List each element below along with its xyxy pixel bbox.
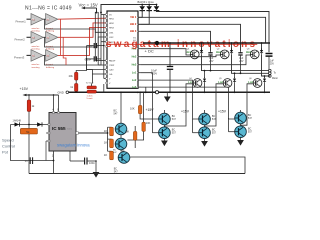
svg-text:547: 547 — [114, 170, 119, 173]
svg-text:CA-: CA- — [109, 73, 113, 76]
wire FAULT stub — [95, 60, 107, 62]
transistor T2 BC547 — [115, 138, 127, 150]
svg-text:HIN1: HIN1 — [109, 18, 115, 20]
node motor terminal phase1 — [269, 69, 272, 72]
wire preset1 input — [27, 18, 32, 20]
wire diode row — [11, 124, 50, 126]
svg-text:+15V: +15V — [218, 110, 227, 114]
wire 555 pin2 stub — [45, 141, 47, 161]
wire pair3 emitters — [240, 124, 242, 126]
ground arrow pair1 — [161, 139, 168, 147]
resistor R 1k top — [27, 95, 35, 125]
svg-text:557: 557 — [212, 132, 217, 135]
svg-text:+ DC: + DC — [145, 49, 154, 54]
wire phase3 collector drop — [261, 43, 263, 51]
svg-text:547: 547 — [114, 112, 119, 115]
diode Q6 freewheel — [263, 77, 266, 83]
svg-text:Lo3: Lo3 — [248, 81, 253, 84]
wire Lo3 feed to pair3 — [141, 87, 235, 119]
svg-text:547: 547 — [248, 117, 253, 120]
transistor pair1 BC557 — [159, 127, 171, 139]
svg-text:HB 2: HB 2 — [130, 22, 137, 26]
svg-text:Ho1: Ho1 — [186, 51, 191, 54]
ground symbol below 100n — [93, 161, 100, 178]
IC1 555 top pin boxes — [53, 112, 60, 114]
svg-text:HB 3: HB 3 — [130, 29, 137, 33]
wire 555 pin4 — [53, 95, 55, 113]
wire pot bottom to rail — [28, 134, 30, 174]
wire dark N3 tap to LIN2 — [45, 37, 108, 47]
transistor Q1 high phase1 — [190, 50, 199, 59]
transistor Q4 low phase1 — [193, 79, 202, 88]
transistor Q6 low phase3 — [253, 79, 262, 88]
svg-text:To Timer: To Timer — [86, 82, 94, 84]
diode Q5 freewheel — [233, 77, 236, 83]
wire pair2 base2 stub — [193, 132, 199, 134]
wire VB2 rail to cap — [141, 24, 241, 51]
resistor R 1K b — [104, 139, 114, 148]
transistor pair3 BC557 — [235, 126, 247, 138]
resistor R 1k lower — [70, 84, 78, 92]
IC1 555 body — [49, 113, 76, 152]
svg-text:Speed: Speed — [2, 138, 14, 143]
wire 555 output pin3 — [76, 132, 108, 134]
wire pair2 supply — [204, 110, 206, 113]
svg-text:Ho3: Ho3 — [132, 64, 137, 67]
svg-text:Lo2: Lo2 — [218, 81, 223, 84]
transistor Q2 high phase2 — [220, 50, 229, 59]
wire caps left riser — [87, 46, 93, 84]
gate N5 — [31, 50, 43, 62]
svg-text:CAO: CAO — [109, 69, 114, 72]
wire pair3 output to Q6 gate — [241, 84, 253, 125]
wire phase2 node — [232, 54, 269, 73]
diode Q3 freewheel — [260, 48, 263, 54]
wire preset2 input — [27, 36, 32, 38]
capacitor C boot3 1uF 25V — [266, 54, 275, 71]
capacitor C 0.1uF — [85, 56, 101, 61]
wire pair1 emitters — [163, 125, 165, 127]
svg-text:Preset3: Preset3 — [14, 56, 25, 60]
transistor pair3 BC547 — [235, 112, 247, 124]
wire T2-T3 link — [121, 150, 124, 152]
wire N1 to N2 — [43, 18, 45, 20]
capacitor C 100n — [70, 158, 96, 165]
IC2 driver IRS2330 body — [107, 11, 138, 88]
wire Lo3 rail link — [145, 87, 147, 92]
svg-text:Lo1: Lo1 — [132, 72, 137, 75]
wire red N4 out to HIN2 — [58, 23, 107, 37]
resistor R 1K c — [104, 151, 114, 160]
IC2 left pin boxes — [106, 14, 108, 84]
svg-text:+15V: +15V — [146, 108, 155, 112]
svg-text:wired as: wired as — [32, 27, 40, 30]
resistor R 20k — [69, 72, 78, 83]
svg-text:5k: 5k — [26, 130, 30, 134]
resistor R 10K c — [125, 126, 137, 148]
wire D2 drop to VB2 rail — [138, 10, 149, 24]
wire pot left leg — [11, 125, 54, 161]
svg-text:0.1uF: 0.1uF — [85, 58, 92, 62]
wire dark N5 tap to LIN3 — [45, 12, 108, 65]
svg-text:1uF: 1uF — [270, 61, 275, 63]
transistor T3 BC547 — [118, 152, 130, 164]
IC2 right pin boxes — [137, 17, 139, 88]
wire pair1 supply — [163, 110, 165, 113]
svg-text:1K: 1K — [104, 153, 108, 157]
node -DC terminal — [155, 91, 158, 94]
wire bottom rail — [29, 173, 245, 175]
capacitor filter 10uF 400V — [151, 43, 173, 92]
wire N3 to N4 — [43, 36, 45, 38]
svg-text:1K: 1K — [104, 141, 108, 145]
potentiometer 5k — [20, 125, 37, 135]
node +DC terminal — [155, 41, 159, 45]
transistor Q5 low phase2 — [223, 79, 232, 88]
transistor pair1 BC547 — [159, 113, 171, 125]
wire phase1 collector drop — [201, 43, 203, 51]
wire Ho3 feed — [141, 55, 250, 65]
wire pair2 base tie — [192, 119, 194, 133]
wire red N2 out to HIN1 — [58, 18, 107, 19]
svg-text:N1---N6 = IC 4049: N1---N6 = IC 4049 — [25, 5, 72, 11]
svg-text:FAULT: FAULT — [109, 60, 116, 63]
wire Q6 emitter — [264, 83, 266, 92]
wire T3 emitter out — [131, 157, 245, 174]
wire T1 collector up — [120, 92, 122, 123]
svg-text:Control: Control — [2, 144, 15, 149]
wire T1-T2 link — [120, 135, 122, 138]
svg-text:100n: 100n — [89, 161, 95, 165]
ground arrow pair2 — [201, 139, 208, 147]
svg-text:Preset1: Preset1 — [16, 20, 27, 24]
svg-text:Ho3: Ho3 — [246, 51, 251, 54]
wire N5 to N6 — [43, 54, 45, 56]
resistor R 1K a — [104, 127, 114, 136]
ground arrow pair3 — [237, 138, 244, 146]
svg-text:10K: 10K — [146, 121, 151, 125]
wire red riser right of gates — [60, 19, 62, 55]
gate N3 — [31, 32, 43, 43]
wire D3 right rail — [157, 10, 270, 52]
wire Vcc feed arrow — [81, 7, 102, 14]
wire CAO stub — [87, 69, 108, 71]
svg-text:Lo2: Lo2 — [132, 79, 137, 82]
wire pair1 output to Q4 gate — [164, 84, 192, 126]
svg-text:25V: 25V — [209, 61, 214, 63]
diode D3 BA159 — [154, 5, 160, 13]
wire CA- stub — [92, 73, 107, 75]
diode D3 1N4148 — [15, 122, 20, 126]
svg-text:HIN3: HIN3 — [109, 28, 115, 30]
svg-text:Pot: Pot — [2, 150, 9, 155]
IC2 right pin stubs — [138, 17, 141, 87]
wire Vcc to IC Vin pin — [101, 14, 107, 16]
wire +15V feed — [23, 94, 59, 97]
wire Q4 emitter — [204, 83, 206, 92]
wire ground rail main — [69, 91, 271, 93]
svg-text:buffering: buffering — [46, 66, 55, 69]
wire Q5 emitter — [234, 83, 236, 92]
wire pair3 base tie — [228, 118, 230, 132]
diode D2 BA159 — [146, 5, 152, 13]
wire preset3 input — [27, 54, 32, 56]
resistor R 10K b — [127, 92, 150, 140]
gate N4 — [46, 32, 58, 43]
transistor pair2 BC557 — [199, 127, 211, 139]
diode D1 BA159 — [139, 5, 145, 13]
diode Q4 freewheel — [203, 77, 206, 83]
svg-text:547: 547 — [172, 118, 177, 121]
svg-text:20k: 20k — [69, 74, 74, 78]
wire 555 pin1 to rail — [53, 151, 55, 174]
svg-text:inverting: inverting — [32, 66, 41, 69]
node motor terminal phase2 — [269, 72, 272, 75]
resistor R sense 2 — [87, 90, 96, 93]
svg-text:10K: 10K — [130, 107, 135, 111]
svg-text:wired as: wired as — [32, 45, 40, 48]
capacitor C 1n — [25, 157, 33, 164]
svg-text:Ho2: Ho2 — [132, 56, 137, 59]
wire +DC rail — [143, 42, 270, 44]
capacitor C boot1 1uF 25V — [208, 51, 214, 70]
wire 555 pin6 stub — [46, 132, 48, 134]
IC1 555 left pin boxes — [48, 124, 50, 142]
wire 555 pin8 — [58, 95, 60, 113]
svg-text:1uF: 1uF — [209, 58, 214, 60]
svg-text:557: 557 — [248, 131, 253, 134]
node motor terminal phase3 — [269, 75, 272, 78]
wire pair2 emitters — [204, 125, 206, 127]
svg-text:VB 1: VB 1 — [130, 15, 137, 19]
gate N1 — [31, 14, 43, 26]
svg-text:GND: GND — [58, 91, 64, 95]
gate N2 — [46, 14, 58, 26]
svg-text:Motor: Motor — [272, 77, 278, 80]
svg-text:400V: 400V — [151, 72, 157, 76]
wire pair3 supply — [240, 110, 242, 112]
wire Q4 collector — [204, 71, 206, 78]
svg-text:1N4148: 1N4148 — [13, 119, 22, 122]
wire 555 out riser — [107, 127, 109, 151]
resistor R sense 1 — [87, 86, 96, 89]
wire bundle vertical 1 — [94, 12, 96, 61]
svg-text:+15V: +15V — [20, 87, 29, 91]
wire Ho2 feed — [141, 55, 220, 57]
transistor Q3 high phase3 — [250, 50, 259, 59]
transistor T1 BC547 — [115, 123, 127, 135]
wire sense tap — [91, 84, 93, 87]
wire Vss stub — [104, 78, 107, 80]
diode Q1 freewheel — [200, 48, 203, 54]
svg-text:Preset2: Preset2 — [15, 38, 26, 42]
wire ITRIP stub — [98, 64, 107, 66]
wire phase1 node — [202, 54, 269, 70]
gate N6 — [46, 50, 58, 62]
wire VB1 rail to cap2 — [141, 17, 266, 43]
diode Q2 freewheel — [230, 48, 233, 54]
svg-text:swagatam innova: swagatam innova — [57, 143, 90, 148]
wire dark N1 tap to LIN1 — [45, 19, 108, 32]
svg-text:10K: 10K — [125, 130, 130, 134]
wire 555 pin5 — [69, 151, 71, 161]
wire top rail — [142, 4, 156, 6]
svg-text:hi-input: hi-input — [46, 27, 53, 30]
capacitor C 10uF — [87, 43, 104, 48]
wire Q5 collector — [234, 74, 236, 79]
wire 20k feed — [76, 59, 86, 72]
wire D1 drop to VB1 rail — [138, 10, 142, 17]
svg-text:557: 557 — [172, 132, 177, 135]
wire Lo2 feed to pair2 — [141, 80, 199, 119]
wire red riser 2 — [63, 37, 66, 65]
svg-text:1uF: 1uF — [239, 58, 244, 60]
wire Vso loop — [103, 84, 105, 92]
wire Ho1 feed — [141, 49, 190, 55]
wire pair1 base2 stub — [152, 132, 158, 134]
svg-text:BA159 x 3nos: BA159 x 3nos — [138, 0, 155, 4]
svg-text:ic 555: ic 555 — [64, 127, 72, 131]
wire Lo1 feed to pair1 — [141, 73, 159, 119]
svg-text:25V: 25V — [270, 64, 275, 66]
wire pair2 output to Q5 gate — [205, 84, 223, 126]
wire red N6 out to HIN3 — [58, 28, 107, 56]
resistor R 10K a — [130, 92, 152, 119]
wire phase3 node — [262, 54, 269, 76]
wire phase2 collector drop — [231, 43, 233, 51]
wire bundle vertical 2 — [97, 12, 99, 65]
ground arrow on rail — [164, 92, 171, 102]
wire Vcc riser to top rail — [101, 5, 157, 13]
svg-text:25V: 25V — [239, 61, 244, 63]
svg-text:+15V: +15V — [181, 110, 190, 114]
svg-text:wired as: wired as — [32, 63, 40, 66]
svg-text:ITRIP: ITRIP — [109, 65, 115, 67]
svg-text:Ho2: Ho2 — [216, 51, 221, 54]
wire Q6 collector — [264, 76, 266, 78]
svg-text:Vcc = 15V: Vcc = 15V — [79, 2, 98, 7]
node GND terminal — [66, 91, 69, 94]
wire bundle vertical 3 — [103, 15, 105, 79]
capacitor C boot2 1uF 25V — [238, 51, 244, 73]
svg-text:5 watt: 5 watt — [87, 97, 93, 100]
diode D4 1N4148 — [37, 122, 42, 126]
svg-text:10uF: 10uF — [87, 44, 93, 48]
svg-text:Lo3: Lo3 — [132, 86, 137, 89]
wire pair1 base tie — [151, 119, 153, 133]
svg-text:HIN2: HIN2 — [109, 23, 115, 25]
wire VB3 rail to cap1 — [141, 31, 211, 51]
transistor pair2 BC547 — [199, 113, 211, 125]
svg-text:1K: 1K — [104, 129, 108, 133]
wire pair3 base2 stub — [229, 131, 235, 133]
